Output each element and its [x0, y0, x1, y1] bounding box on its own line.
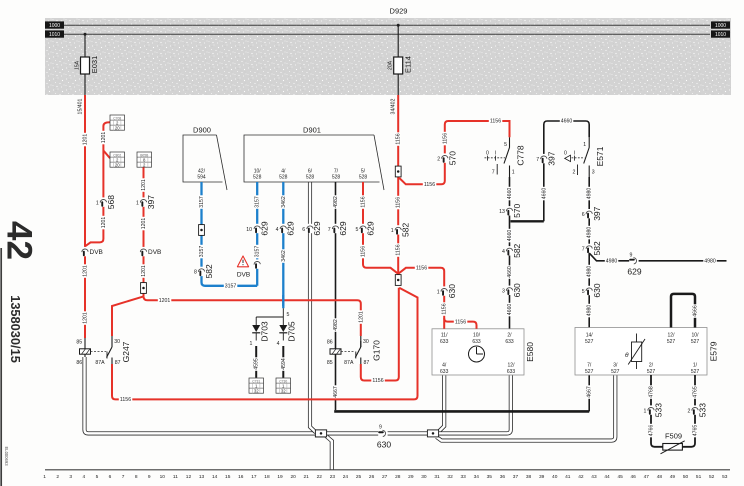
svg-text:4768: 4768: [648, 386, 654, 398]
svg-text:41: 41: [565, 474, 571, 480]
svg-text:397: 397: [592, 206, 602, 220]
connector 5 / 629: [360, 224, 366, 233]
svg-text:5: 5: [356, 227, 359, 233]
svg-text:4: 4: [276, 227, 279, 233]
svg-text:4766: 4766: [648, 425, 654, 437]
wire earth from E580 pin 4/633: [439, 375, 444, 432]
svg-text:16: 16: [238, 474, 244, 480]
svg-text:4595: 4595: [254, 358, 260, 370]
svg-text:87: 87: [115, 360, 121, 366]
svg-text:F509: F509: [665, 432, 682, 441]
switch E571 pin 2: [577, 165, 579, 176]
svg-text:633: 633: [505, 339, 514, 345]
svg-text:34: 34: [474, 474, 480, 480]
svg-text:86: 86: [327, 339, 333, 345]
wire 3462 crossing over 1201: [282, 295, 284, 306]
wire 1156 from D901 5/528: [363, 182, 398, 274]
svg-text:4: 4: [277, 341, 280, 347]
svg-text:θ: θ: [625, 352, 629, 359]
unit E580 box: [432, 329, 524, 375]
svg-text:5/: 5/: [361, 168, 366, 174]
svg-text:4/: 4/: [281, 168, 286, 174]
connector DVB on 1201: [140, 247, 146, 256]
svg-text:8: 8: [194, 270, 197, 276]
svg-text:20: 20: [115, 126, 120, 131]
connector 3 / 630: [506, 286, 512, 295]
svg-text:86: 86: [76, 360, 82, 366]
svg-text:2/: 2/: [649, 363, 654, 369]
svg-text:528: 528: [306, 175, 315, 181]
fuse F509: [663, 444, 683, 451]
svg-text:528: 528: [332, 175, 341, 181]
svg-text:582: 582: [204, 264, 214, 278]
junction box right on earth run: [427, 430, 438, 437]
connector box C802: [110, 152, 125, 168]
svg-text:1201: 1201: [141, 218, 147, 230]
svg-text:D705: D705: [287, 321, 297, 342]
svg-text:29: 29: [408, 474, 414, 480]
fuse E114 supply wire: [397, 24, 400, 27]
wire 4666 bracket E579 12/527 to 10/527: [671, 294, 695, 328]
svg-text:4: 4: [83, 474, 86, 480]
connector box C730 pin 32: [276, 378, 291, 394]
svg-text:1/: 1/: [693, 363, 698, 369]
svg-text:87A: 87A: [344, 360, 354, 366]
connector 8 / 582: [198, 267, 204, 276]
node label 1000 right: [711, 21, 730, 28]
svg-text:7: 7: [492, 170, 495, 176]
connector 10 / 629: [254, 224, 260, 233]
bus 1010 line: [64, 33, 710, 35]
node label 1000 left: [45, 21, 64, 28]
svg-text:2: 2: [573, 170, 576, 176]
svg-text:4660: 4660: [507, 230, 513, 242]
svg-text:568: 568: [106, 195, 116, 209]
svg-text:51: 51: [696, 474, 702, 480]
wire 397/4660 loop to E571: [544, 121, 589, 221]
svg-text:582: 582: [401, 223, 411, 237]
svg-text:7/: 7/: [587, 363, 592, 369]
svg-text:30: 30: [363, 339, 369, 345]
svg-text:12/: 12/: [508, 363, 516, 369]
wire label 4660 top: [560, 119, 574, 124]
svg-text:42: 42: [578, 474, 584, 480]
svg-text:397: 397: [146, 195, 156, 209]
connector 7 / 582: [586, 244, 592, 253]
svg-text:24: 24: [343, 474, 349, 480]
wire 1201 branch to interface boxes: [85, 122, 110, 246]
svg-text:1000: 1000: [49, 23, 60, 29]
svg-text:7: 7: [582, 247, 585, 253]
svg-text:4666: 4666: [692, 305, 698, 317]
svg-text:5: 5: [582, 289, 585, 295]
diode D705: [279, 325, 287, 332]
svg-text:1: 1: [391, 228, 394, 234]
svg-text:1201: 1201: [358, 311, 364, 323]
connector box B05B: [137, 152, 152, 168]
svg-text:5: 5: [504, 142, 507, 148]
connector 1 / 533: [648, 405, 654, 414]
svg-text:4980: 4980: [587, 227, 593, 239]
wire 1156 from G247 pin 87 long run: [112, 288, 418, 400]
svg-text:32: 32: [447, 474, 453, 480]
relay G170 link and contact: [341, 351, 355, 353]
svg-text:4660: 4660: [541, 188, 547, 200]
svg-text:582: 582: [512, 243, 522, 257]
svg-text:20: 20: [290, 474, 296, 480]
junction box on 1156 feed upper: [395, 166, 401, 177]
svg-text:4594: 4594: [281, 358, 287, 370]
wire 1156 branch to switch C778: [399, 121, 510, 184]
svg-text:32: 32: [254, 389, 259, 394]
junction box on 1201: [141, 283, 147, 294]
svg-text:4980: 4980: [587, 188, 593, 200]
svg-text:7: 7: [328, 227, 331, 233]
svg-text:C778: C778: [516, 145, 526, 166]
svg-text:20A: 20A: [388, 60, 394, 70]
svg-text:4982: 4982: [333, 319, 339, 331]
wire earth from E580 pin 12/633: [439, 375, 511, 433]
svg-text:10/: 10/: [254, 168, 262, 174]
svg-text:4980: 4980: [587, 266, 593, 278]
connector box C708: [110, 115, 125, 131]
box D900: [183, 135, 227, 190]
wire 15/401 1201 main feed from fuse E031: [84, 95, 86, 338]
switch E571 pin 3: [588, 166, 590, 178]
svg-text:53: 53: [722, 474, 728, 480]
svg-text:2: 2: [56, 474, 59, 480]
svg-text:527: 527: [611, 369, 620, 375]
svg-text:594: 594: [197, 175, 206, 181]
svg-text:4765: 4765: [692, 425, 698, 437]
svg-text:23: 23: [330, 474, 336, 480]
svg-text:4980: 4980: [704, 259, 716, 265]
svg-text:4980: 4980: [606, 259, 618, 265]
svg-text:39: 39: [539, 474, 545, 480]
svg-text:527: 527: [647, 369, 656, 375]
svg-text:37: 37: [513, 474, 519, 480]
svg-text:528: 528: [253, 175, 262, 181]
switch C778 blade: [504, 148, 510, 164]
svg-text:397: 397: [546, 151, 556, 165]
svg-text:1: 1: [583, 142, 586, 148]
svg-text:10: 10: [160, 474, 166, 480]
svg-text:1: 1: [644, 408, 647, 414]
svg-text:629: 629: [627, 266, 641, 276]
svg-text:630: 630: [592, 283, 602, 297]
svg-text:E579: E579: [709, 341, 719, 361]
svg-text:31: 31: [434, 474, 440, 480]
svg-text:570: 570: [512, 203, 522, 217]
svg-text:85: 85: [76, 339, 82, 345]
svg-text:2: 2: [688, 408, 691, 414]
wire earth from G247 pin86 to junction box: [85, 357, 316, 433]
svg-text:36: 36: [500, 474, 506, 480]
connector 7 / 397: [541, 154, 547, 163]
wire 4980 horizontal run to right edge: [589, 253, 726, 261]
svg-text:DVB: DVB: [148, 249, 161, 256]
svg-text:633: 633: [472, 339, 481, 345]
connector 7 / 629: [332, 224, 338, 233]
wire 1201 to G247 pin 30: [112, 296, 144, 336]
switch C778 pin 1: [509, 166, 511, 178]
connector 4 / 629: [280, 224, 286, 233]
svg-text:0: 0: [564, 151, 567, 157]
connector 6 / 629 on earth wire: [307, 224, 313, 233]
wire 4667 thick run to E579: [334, 410, 589, 413]
warning triangle DVB: [237, 256, 248, 267]
relay G170 coil: [330, 349, 341, 354]
svg-text:528: 528: [359, 175, 368, 181]
svg-text:633: 633: [440, 339, 449, 345]
svg-text:1156: 1156: [490, 119, 501, 125]
svg-text:42/: 42/: [198, 168, 206, 174]
unit E580 clock symbol: [469, 346, 485, 362]
connector DVB on 1201 feed: [82, 247, 88, 256]
svg-text:629: 629: [286, 221, 296, 235]
svg-text:3157: 3157: [255, 246, 261, 258]
svg-text:G247: G247: [121, 341, 131, 362]
svg-text:87A: 87A: [95, 360, 105, 366]
svg-text:2/: 2/: [507, 332, 512, 338]
svg-text:4980: 4980: [587, 305, 593, 317]
box D901: [244, 135, 384, 190]
svg-text:527: 527: [691, 339, 700, 345]
svg-text:8: 8: [135, 474, 138, 480]
fuse E114 20A: [394, 57, 403, 74]
svg-text:630: 630: [447, 284, 457, 298]
svg-text:633: 633: [507, 369, 516, 375]
svg-text:1156: 1156: [455, 319, 466, 325]
svg-text:629: 629: [365, 221, 375, 235]
svg-text:527: 527: [667, 339, 676, 345]
unit E579 thermistor symbol: [636, 334, 638, 343]
svg-text:1201: 1201: [82, 265, 88, 277]
svg-text:21: 21: [304, 474, 310, 480]
svg-text:3157: 3157: [199, 196, 205, 208]
svg-text:4660: 4660: [561, 119, 573, 125]
svg-text:G170: G170: [372, 340, 382, 361]
node label 1010 right: [711, 30, 730, 37]
wire 1156 junction to E580: [398, 268, 444, 329]
fuse E031 15A: [81, 57, 90, 74]
svg-text:1: 1: [96, 200, 99, 206]
svg-text:3157: 3157: [199, 246, 205, 258]
wire 34/402 1156 feed from fuse E114: [397, 95, 399, 274]
svg-text:30: 30: [421, 474, 427, 480]
svg-text:6/: 6/: [308, 168, 313, 174]
svg-text:629: 629: [312, 221, 322, 235]
svg-text:1156: 1156: [396, 244, 402, 255]
svg-text:1156: 1156: [120, 397, 131, 403]
svg-text:40: 40: [552, 474, 558, 480]
svg-text:533: 533: [654, 403, 664, 417]
svg-text:533: 533: [698, 403, 708, 417]
svg-text:1: 1: [512, 170, 515, 176]
svg-text:52: 52: [709, 474, 715, 480]
svg-text:38: 38: [526, 474, 532, 480]
svg-text:1156: 1156: [360, 246, 366, 257]
switch E571 blade: [584, 148, 590, 164]
svg-text:42: 42: [0, 221, 38, 260]
svg-text:12: 12: [186, 474, 192, 480]
svg-text:3: 3: [69, 474, 72, 480]
svg-text:11/: 11/: [441, 332, 448, 338]
svg-text:1156: 1156: [424, 182, 435, 188]
svg-text:6: 6: [109, 474, 112, 480]
svg-text:629: 629: [338, 221, 348, 235]
wire 4594 to C730: [282, 346, 284, 378]
svg-text:44: 44: [604, 474, 610, 480]
svg-text:1010: 1010: [49, 32, 60, 38]
bus 1000 line: [64, 24, 710, 26]
svg-text:5: 5: [96, 474, 99, 480]
svg-text:35: 35: [487, 474, 493, 480]
svg-text:D929: D929: [390, 7, 408, 16]
svg-text:570: 570: [447, 151, 457, 165]
connector box C731 pin 32: [249, 378, 264, 394]
junction box on 3157: [199, 225, 205, 236]
svg-text:1: 1: [136, 200, 139, 206]
power rail band: [45, 18, 731, 95]
svg-text:1000: 1000: [715, 23, 726, 29]
svg-text:45: 45: [617, 474, 623, 480]
svg-text:3157: 3157: [225, 284, 237, 290]
svg-text:528: 528: [279, 175, 288, 181]
svg-text:5: 5: [287, 312, 290, 318]
svg-text:527: 527: [691, 369, 700, 375]
connector 1 / 630: [441, 286, 447, 295]
svg-text:10/: 10/: [473, 332, 481, 338]
svg-text:E031: E031: [90, 56, 99, 74]
wire label 3157 horizontal: [224, 283, 238, 288]
svg-text:26: 26: [369, 474, 375, 480]
svg-text:D900: D900: [193, 126, 211, 135]
svg-text:527: 527: [585, 369, 594, 375]
relay G247 link and contact: [91, 351, 107, 353]
wire 1201 from B05B: [143, 167, 145, 296]
fuse E031 supply wire: [84, 33, 87, 36]
switch E571 contact pin 1: [588, 137, 590, 147]
svg-text:1: 1: [250, 341, 253, 347]
connector 1 / 397: [140, 197, 146, 206]
svg-text:9: 9: [379, 425, 382, 431]
svg-text:3157: 3157: [255, 196, 261, 208]
svg-text:7/: 7/: [334, 168, 339, 174]
switch C778 feed contact pin 5: [509, 137, 511, 147]
svg-text:3462: 3462: [281, 250, 287, 262]
wire 1156 from G170 pin 87: [361, 288, 399, 381]
connector 2 / 570: [442, 153, 448, 162]
svg-text:E580: E580: [525, 342, 535, 362]
svg-text:3/: 3/: [613, 363, 618, 369]
wire 3462 from D901 4/528 to diodes: [282, 182, 284, 308]
svg-text:1156: 1156: [442, 133, 448, 144]
svg-text:1201: 1201: [82, 312, 88, 324]
svg-text:12/: 12/: [668, 332, 676, 338]
connector 9 / 629: [629, 258, 638, 264]
svg-text:2: 2: [437, 156, 440, 162]
svg-text:25: 25: [356, 474, 362, 480]
svg-text:15A: 15A: [74, 60, 80, 70]
svg-text:48: 48: [657, 474, 663, 480]
svg-text:7: 7: [536, 157, 539, 163]
svg-text:33: 33: [460, 474, 466, 480]
svg-text:43: 43: [591, 474, 597, 480]
diode D703: [252, 325, 260, 332]
connector 1 / 582: [395, 225, 401, 234]
svg-text:1201: 1201: [141, 179, 147, 191]
svg-text:1156: 1156: [396, 197, 402, 208]
svg-text:6: 6: [582, 212, 585, 218]
svg-text:4982: 4982: [333, 196, 339, 208]
wire earth from E579 pin 3/527: [437, 375, 616, 441]
svg-text:9: 9: [630, 253, 633, 259]
svg-text:4667: 4667: [333, 386, 339, 398]
svg-text:87: 87: [364, 360, 370, 366]
svg-text:14/: 14/: [586, 332, 594, 338]
svg-text:633: 633: [440, 369, 449, 375]
wire earth stub to ground point 23: [326, 436, 332, 470]
wire 4980 from E571 pin3 to E579 14/527: [588, 177, 590, 328]
svg-text:E114: E114: [403, 56, 412, 73]
svg-text:13: 13: [199, 474, 205, 480]
svg-text:4660: 4660: [507, 188, 513, 200]
wire 3157 from D901 10/528: [256, 182, 258, 286]
svg-text:4: 4: [502, 249, 505, 255]
svg-text:4765: 4765: [692, 386, 698, 398]
svg-text:7: 7: [122, 474, 125, 480]
svg-text:1156: 1156: [442, 303, 448, 314]
wire 4765 from E579 1/527 to fuse F509: [682, 375, 695, 447]
connector 13 / 570: [506, 206, 512, 215]
svg-text:50: 50: [683, 474, 689, 480]
svg-text:47: 47: [644, 474, 650, 480]
svg-text:18: 18: [264, 474, 270, 480]
connector 1 / 568: [100, 197, 106, 206]
svg-text:1156: 1156: [372, 378, 383, 384]
connector 4 / 582: [506, 246, 512, 255]
svg-text:10: 10: [246, 227, 252, 233]
svg-text:4660: 4660: [507, 304, 513, 316]
svg-text:85: 85: [327, 360, 333, 366]
connector DVB on 3157: [254, 259, 260, 268]
svg-text:1: 1: [437, 289, 440, 295]
svg-text:28: 28: [395, 474, 401, 480]
relay G247 pin86 stub: [84, 354, 86, 357]
left page edge line: [0, 248, 2, 486]
wire 1201 long run to G170 pin 30: [144, 296, 361, 336]
svg-text:630: 630: [377, 439, 391, 449]
svg-text:1358030/15: 1358030/15: [8, 295, 23, 363]
svg-text:1201: 1201: [101, 132, 107, 144]
wire earth junction box left: [315, 430, 326, 437]
svg-text:3462: 3462: [281, 196, 287, 208]
svg-text:19: 19: [277, 474, 283, 480]
bottom scale line: [45, 469, 730, 471]
svg-text:1201: 1201: [101, 217, 107, 229]
svg-text:15/401: 15/401: [78, 98, 84, 114]
svg-text:582: 582: [592, 241, 602, 255]
svg-text:3: 3: [592, 170, 595, 176]
connector 5 / 630: [586, 286, 592, 295]
svg-text:10/: 10/: [692, 332, 700, 338]
svg-text:30: 30: [114, 339, 120, 345]
relay G247 coil: [80, 349, 91, 354]
svg-text:46: 46: [631, 474, 637, 480]
svg-text:4667: 4667: [587, 386, 593, 398]
svg-text:9: 9: [148, 474, 151, 480]
